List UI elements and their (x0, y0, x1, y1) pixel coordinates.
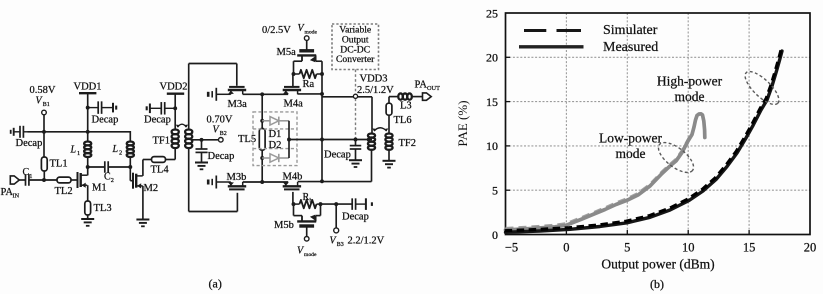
wire M4b gate down (292, 192, 294, 204)
transmission line TL5 (238, 129, 265, 151)
node Ra right (320, 72, 324, 76)
svg-text:VDD3: VDD3 (360, 74, 388, 85)
input label PA_IN (1, 187, 20, 199)
curve low-power simulated gray dashed (506, 133, 692, 228)
transistor M3a (228, 87, 248, 110)
node V_B3 tap (334, 202, 338, 206)
wire TL3 to ground (87, 215, 89, 219)
svg-text:Low-power: Low-power (599, 131, 662, 146)
node TL5 bus bottom (260, 180, 264, 184)
svg-text:VDD1: VDD1 (74, 82, 102, 93)
decap at far left (11, 126, 43, 149)
svg-text:Ra: Ra (303, 79, 315, 90)
decap mid right (324, 140, 362, 168)
svg-text:Simulater: Simulater (603, 23, 658, 38)
curve high-power simulated black dashed (505, 49, 782, 230)
label VDD3 2.5/1.2V (357, 74, 394, 96)
annotation High-power mode (657, 73, 723, 104)
wire diode mid to bus (289, 139, 372, 141)
dashed box around D1 D2 (253, 112, 297, 166)
bus M4 drains vertical (321, 74, 323, 181)
gate AC-ground cap of M3a (208, 88, 231, 101)
svg-text:1: 1 (29, 173, 32, 180)
bias terminal V_B3 2.2/1.2V (330, 204, 385, 248)
transistor M4a (283, 87, 303, 110)
svg-text:25: 25 (486, 6, 498, 20)
svg-text:5: 5 (624, 240, 630, 254)
bias terminal V_B2 0.70V (207, 114, 233, 142)
wire C1 to node (29, 179, 57, 181)
supply VDD1 (74, 82, 102, 142)
svg-text:Decap: Decap (144, 114, 171, 125)
y tick labels (486, 6, 498, 242)
supply VDD2 (160, 82, 188, 130)
svg-text:M5b: M5b (274, 220, 294, 231)
legend label Simulater (603, 23, 658, 38)
y axis title PAE (%) (455, 100, 470, 146)
svg-text:L: L (112, 144, 119, 155)
transistor M2 (133, 173, 158, 194)
svg-text:20: 20 (804, 240, 817, 254)
svg-text:Measured: Measured (603, 40, 658, 55)
svg-text:M5a: M5a (277, 47, 297, 58)
svg-text:Output power (dBm): Output power (dBm) (601, 256, 714, 271)
bus TL5 vertical (261, 94, 263, 182)
wire M2 drain up to TL4 (143, 160, 152, 176)
wire C2 to M2 gate node (108, 166, 130, 168)
svg-text:Decap: Decap (324, 150, 351, 161)
svg-text:B3: B3 (337, 242, 344, 248)
output port PA_OUT (423, 93, 432, 100)
decap right of VDD1 (88, 101, 119, 125)
svg-text:Decap: Decap (16, 138, 43, 149)
x axis title Output power (dBm) (601, 256, 714, 271)
svg-text:Converter: Converter (336, 54, 375, 65)
svg-text:(a): (a) (209, 277, 222, 291)
x tick labels (505, 240, 816, 254)
svg-text:mode: mode (616, 146, 646, 161)
svg-text:10: 10 (486, 139, 498, 153)
svg-text:15: 15 (743, 240, 756, 254)
resistor Ra (294, 70, 323, 90)
node input bias junction (42, 178, 46, 182)
legend label Measured (603, 40, 658, 55)
wire M4a drain to bus (298, 93, 322, 95)
chart axis ticks (506, 57, 750, 234)
svg-text:Decap: Decap (208, 151, 235, 162)
svg-text:TL1: TL1 (50, 159, 68, 170)
wire M3a to M4a (243, 93, 289, 95)
wire TF1 secondary bottom to M3b gate (189, 148, 238, 211)
bias terminal V_B1 0.58V (30, 85, 56, 115)
wire diode link vertical (288, 121, 290, 158)
svg-text:M3a: M3a (228, 99, 248, 110)
caption (a) (209, 277, 222, 291)
decap bottom right (342, 198, 372, 222)
wire M3b to M4b (243, 181, 289, 183)
wire input to C1 (19, 179, 25, 181)
svg-text:VDD2: VDD2 (160, 82, 188, 93)
wire M1 drain up (86, 157, 88, 175)
svg-text:M1: M1 (92, 183, 107, 194)
diode D1 (262, 117, 289, 140)
svg-text:L: L (70, 145, 77, 156)
wire rail corner down to L2 (129, 131, 131, 142)
transmission line TL1 (41, 157, 67, 171)
svg-text:15: 15 (486, 95, 498, 109)
supply rail VDD3 (322, 96, 372, 98)
node bus M4b drain (320, 179, 324, 183)
gate AC-ground cap of M3b (208, 176, 231, 189)
wire L3 to output port (412, 96, 423, 98)
curve low-power measured gray (506, 114, 705, 230)
transistor M5b (274, 204, 321, 231)
svg-text:IN: IN (13, 192, 20, 199)
ground under TL3 (81, 219, 94, 226)
transistor M3b (227, 172, 247, 189)
transmission line TL2 (55, 177, 73, 197)
node D2 tap (260, 156, 264, 160)
node bus M4a drain (320, 92, 324, 96)
transformer TF2 (368, 128, 416, 150)
transmission line TL4 (151, 157, 170, 176)
wire TL6 up to output line (389, 97, 398, 104)
wire M2 source down (142, 186, 144, 220)
mode terminal V_mode top 0/2.5V (262, 23, 317, 51)
wire TL1 to input node (43, 171, 45, 180)
svg-text:5: 5 (492, 184, 498, 198)
legend measured line (519, 45, 584, 48)
TF1 center tap to V_B2 (191, 139, 219, 141)
wire TF2 secondary bottom to ground (388, 150, 390, 161)
ellipse marker low-power (654, 137, 699, 178)
ellipse marker high-power (740, 67, 783, 110)
svg-text:High-power: High-power (657, 73, 723, 88)
svg-text:b: b (310, 197, 313, 204)
chart gridlines (506, 13, 811, 235)
svg-text:0.70V: 0.70V (207, 114, 233, 125)
svg-text:mode: mode (304, 252, 317, 258)
svg-text:TF2: TF2 (399, 138, 417, 149)
node VDD1 on rail (86, 130, 90, 134)
chart axes frame (506, 13, 811, 235)
node VDD2 decap tap (173, 106, 177, 110)
svg-text:OUT: OUT (427, 85, 440, 92)
svg-text:TL4: TL4 (151, 165, 170, 176)
node DC-DC to TF2 wire (354, 138, 358, 142)
node VDD1 decap tap (86, 106, 90, 110)
wire VDD3 rail corner down to TF2 (371, 97, 373, 134)
ground under M2 (136, 220, 149, 227)
node V_B1 rail (42, 130, 46, 134)
svg-text:mode: mode (305, 30, 318, 36)
transistor M4b (283, 172, 303, 190)
capacitor C1 (23, 167, 33, 186)
node Ra left (292, 72, 296, 76)
node diode mid (287, 138, 291, 142)
node center tap decap (200, 138, 204, 142)
decap left of VDD2 (144, 102, 175, 125)
svg-text:0: 0 (563, 240, 569, 254)
input port PA_IN (10, 176, 19, 184)
wire TF2 secondary top to TL6 (388, 115, 390, 133)
node Rb left (292, 202, 296, 206)
inductor L2 (112, 142, 134, 158)
inductor L3 (398, 93, 412, 111)
wire TL4 to TF1 primary bottom (166, 148, 176, 159)
svg-text:D1: D1 (269, 129, 282, 140)
wire M4b drain to TF2 (298, 150, 372, 182)
svg-text:L3: L3 (400, 101, 412, 112)
svg-text:R: R (303, 192, 310, 203)
wire V_B1 down to TL1 (43, 115, 45, 157)
svg-text:2: 2 (111, 177, 114, 184)
svg-text:D2: D2 (269, 140, 282, 151)
resistor Rb (294, 192, 321, 208)
svg-text:PA: PA (415, 80, 428, 91)
decap under V_B2 line (195, 140, 234, 170)
svg-text:TF1: TF1 (153, 136, 171, 147)
wire Rb to V_B3 and decap (321, 203, 353, 205)
curve high-power measured black (506, 51, 783, 232)
svg-text:B2: B2 (220, 131, 227, 137)
transmission line TL3 (85, 201, 112, 215)
wire TL2 to M1 gate (71, 179, 78, 181)
transistor M5a (277, 47, 323, 74)
diode D2 (262, 140, 289, 162)
dashed DC-DC output line (355, 70, 357, 140)
svg-text:0: 0 (492, 228, 498, 242)
svg-text:B1: B1 (43, 102, 50, 108)
annotation Low-power mode (599, 131, 662, 162)
svg-text:−5: −5 (505, 240, 518, 254)
mode terminal V_mode bottom (297, 226, 317, 258)
svg-text:10: 10 (682, 240, 695, 254)
caption (b) (650, 277, 664, 291)
svg-text:mode: mode (675, 89, 705, 104)
wire M1 source down (87, 185, 89, 201)
node M1 drain (86, 165, 90, 169)
wire bias rail (28, 131, 131, 133)
svg-text:Decap: Decap (342, 212, 369, 223)
capacitor C2 (104, 161, 114, 184)
svg-text:2.2/1.2V: 2.2/1.2V (348, 236, 385, 247)
node D1 tap (260, 119, 264, 123)
svg-text:M4a: M4a (284, 99, 304, 110)
transmission line TL6 (386, 103, 411, 126)
variable output DC-DC converter dashed box (332, 24, 379, 70)
legend simulated dashes (524, 29, 581, 32)
svg-text:20: 20 (486, 51, 498, 65)
svg-text:TL6: TL6 (394, 115, 412, 126)
svg-text:TL3: TL3 (94, 203, 112, 214)
svg-text:M2: M2 (144, 183, 159, 194)
wire down to M2 gate (130, 167, 133, 181)
svg-text:2: 2 (119, 150, 122, 157)
wire M4a gate up (292, 74, 294, 88)
node Rb right (319, 202, 323, 206)
svg-text:0.58V: 0.58V (30, 85, 56, 96)
svg-text:(b): (b) (650, 277, 664, 291)
wire TF1 secondary top to M3a gate (189, 64, 237, 130)
svg-text:1: 1 (77, 150, 80, 157)
svg-text:Decap: Decap (92, 115, 119, 126)
svg-text:PA: PA (1, 187, 14, 198)
node bus TF2 wire (320, 138, 324, 142)
ground under TF2 (383, 161, 396, 168)
node L2 bottom (128, 157, 132, 169)
output label PA_OUT (415, 80, 441, 93)
transistor M1 (78, 172, 107, 194)
svg-text:0/2.5V: 0/2.5V (262, 25, 291, 36)
node TL5 bus top (260, 92, 264, 96)
svg-text:2.5/1.2V: 2.5/1.2V (357, 85, 394, 96)
inductor L1 (70, 142, 92, 158)
svg-text:PAE (%): PAE (%) (455, 100, 470, 146)
svg-text:TL2: TL2 (55, 186, 73, 197)
terminal on VDD3 rail (353, 94, 357, 98)
transformer TF1 (153, 124, 193, 148)
wire drain node to C2 (88, 166, 105, 168)
